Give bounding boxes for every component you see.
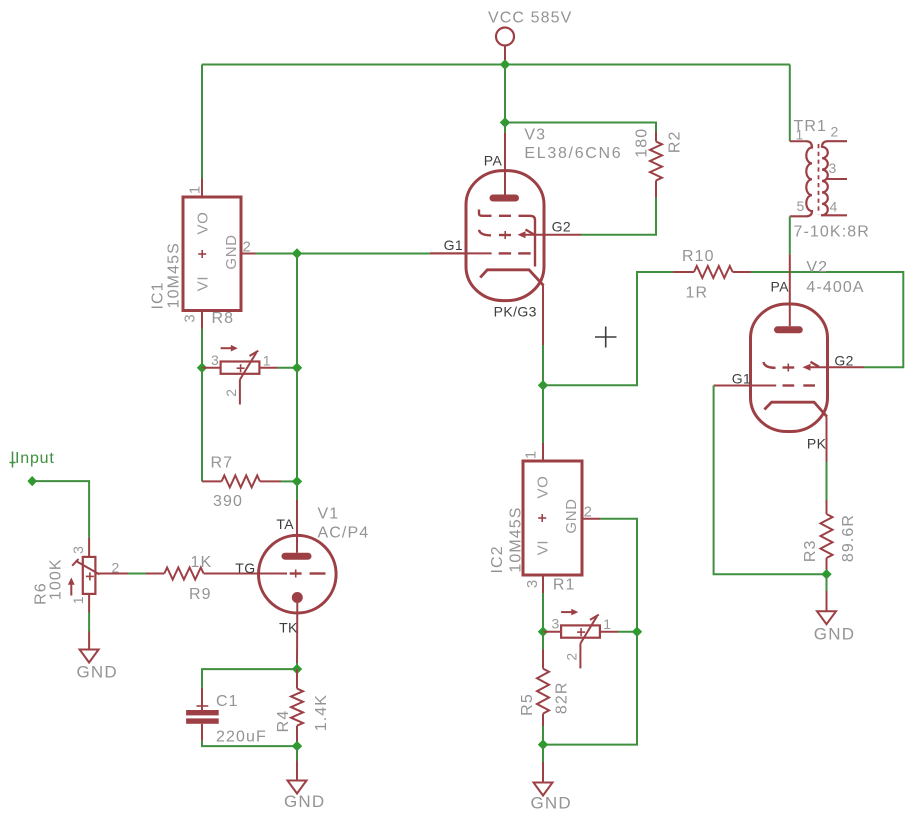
- svg-text:1: 1: [70, 596, 86, 604]
- svg-text:VI: VI: [194, 276, 211, 291]
- tube V1 cathode dot: [292, 592, 303, 603]
- value label 100K: [47, 558, 64, 600]
- trimmer R1 number 1: [603, 616, 611, 632]
- svg-text:R1: R1: [553, 576, 576, 593]
- IC1 label VI: [194, 276, 211, 291]
- junction R8 left: [197, 363, 207, 373]
- wire IC2 pin2 right: [600, 519, 637, 632]
- trimmer R1 pin 3: [543, 631, 561, 633]
- pin label G1 V2: [732, 370, 751, 386]
- trimmer R1 plus mark: [577, 628, 585, 636]
- value label 220uF: [216, 729, 267, 746]
- value label 1K: [191, 554, 213, 571]
- svg-text:PK: PK: [807, 436, 827, 452]
- wire R6 to GND: [88, 613, 90, 632]
- junction R1 left: [538, 627, 548, 637]
- value label 82R: [554, 681, 571, 714]
- svg-text:IC2: IC2: [489, 545, 506, 573]
- svg-text:R4: R4: [275, 710, 292, 733]
- resistor R7: [202, 475, 281, 487]
- trimmer R8 pin 2 stub: [239, 380, 241, 405]
- wire rail left drop to IC1: [201, 65, 203, 179]
- wire IC1 pin2 to V3 G1: [256, 253, 431, 255]
- name label C1: [216, 693, 239, 710]
- wire node to C1: [202, 669, 297, 688]
- name label R9: [189, 586, 212, 603]
- trimmer R8 pin 3: [202, 367, 221, 369]
- trimmer R8 number 1: [263, 352, 271, 368]
- name label TR1: [794, 118, 828, 135]
- name label R5: [519, 693, 536, 716]
- svg-text:Input: Input: [15, 450, 55, 467]
- tube V2 anode plate: [778, 326, 800, 333]
- svg-text:4-400A: 4-400A: [806, 279, 864, 296]
- trimmer R1 number 2: [564, 653, 580, 661]
- TR1 number 3: [829, 160, 837, 176]
- power symbol VCC: [496, 28, 514, 65]
- junction V3 cathode node: [538, 380, 548, 390]
- value label 1.4K: [313, 694, 330, 731]
- svg-text:1.4K: 1.4K: [313, 694, 330, 731]
- capacitor C1 pin top: [197, 688, 209, 710]
- IC2 pin 2: [582, 518, 600, 520]
- wire IC1 pin3 down: [201, 329, 203, 368]
- capacitor C1 plates: [186, 710, 219, 724]
- value label 1R: [686, 285, 709, 302]
- wire node to R2 top: [505, 123, 656, 132]
- wire VCC branch down: [504, 65, 506, 123]
- tube V1 grid pin TG: [248, 573, 287, 575]
- wire V3 G1 pin red: [430, 252, 467, 254]
- svg-text:R10: R10: [682, 248, 715, 265]
- wire R8 right down: [296, 368, 298, 482]
- junction R4 bottom: [292, 741, 302, 751]
- tube V2 anode pin PA: [789, 254, 791, 326]
- IC2 label VI: [534, 540, 551, 555]
- wire V1 TK to node: [296, 663, 298, 669]
- svg-text:1: 1: [263, 352, 271, 368]
- wire V2 PK down: [826, 462, 828, 500]
- value label EL38/6CN6: [524, 145, 622, 162]
- tube V3 cathode pin PK/G3: [542, 286, 544, 346]
- svg-text:GND: GND: [77, 662, 118, 681]
- svg-text:R5: R5: [519, 693, 536, 716]
- svg-text:TK: TK: [279, 620, 298, 636]
- wire R3 node to GND: [826, 574, 828, 591]
- IC2 pin 1: [542, 443, 544, 461]
- svg-text:V2: V2: [806, 259, 828, 276]
- tube V1 cathode pin TK: [296, 603, 298, 663]
- svg-text:R8: R8: [212, 310, 235, 327]
- wire node to R10 riser: [543, 272, 674, 385]
- tube V3 grid G2 row: [479, 230, 534, 240]
- svg-text:2: 2: [112, 559, 120, 575]
- svg-text:VO: VO: [534, 476, 551, 499]
- ground GND3: [534, 783, 553, 796]
- tube V3 grid G1 row: [430, 252, 531, 254]
- pot R6 plus mark: [86, 572, 94, 580]
- svg-text:PA: PA: [771, 278, 790, 294]
- svg-text:TA: TA: [276, 516, 294, 532]
- svg-text:G1: G1: [444, 237, 463, 253]
- transformer TR1 pin 1: [790, 140, 806, 142]
- wire R7 to node: [281, 480, 297, 482]
- value label 7-10K:8R: [794, 223, 870, 240]
- svg-text:VO: VO: [194, 212, 211, 235]
- IC2 pin 3 number: [524, 580, 541, 588]
- svg-text:V1: V1: [318, 506, 340, 523]
- resistor R5: [537, 650, 549, 727]
- pin label G2 V3: [552, 219, 571, 235]
- tube V3 grid pin G2: [523, 234, 581, 236]
- IC2 label VO: [534, 476, 551, 499]
- IC2 plus mark: [538, 514, 546, 522]
- trimmer R1 pin 2 stub: [579, 644, 581, 669]
- tube V2 grid pin G2: [808, 366, 864, 368]
- svg-text:1: 1: [187, 186, 204, 194]
- IC1 pin 1 number: [187, 186, 204, 194]
- svg-text:1R: 1R: [686, 285, 709, 302]
- tube V1 envelope: [259, 535, 337, 613]
- name label V1: [318, 506, 340, 523]
- IC1 label GND: [223, 234, 240, 269]
- name label R10: [682, 248, 715, 265]
- ground GND4 stub: [826, 591, 828, 611]
- ground GND3 stub: [542, 762, 544, 783]
- svg-text:GND: GND: [284, 792, 325, 811]
- ground GND1: [80, 650, 99, 663]
- pin label TA: [276, 516, 294, 532]
- svg-text:3: 3: [552, 616, 560, 632]
- TR1 number 2: [831, 124, 839, 140]
- name label V3: [524, 126, 546, 143]
- wire top rail: [202, 64, 790, 66]
- svg-text:220uF: 220uF: [216, 729, 267, 746]
- trimmer R1 adjust arrow: [561, 609, 578, 616]
- TR1 number 5: [797, 198, 805, 214]
- transformer TR1 core: [818, 144, 820, 215]
- trimmer R1 pin 1: [600, 631, 637, 633]
- svg-text:2: 2: [564, 653, 580, 661]
- tube V1 anode pin TA: [296, 500, 298, 553]
- trimmer R8 plus mark: [237, 364, 245, 372]
- svg-text:G1: G1: [732, 370, 751, 386]
- svg-text:1: 1: [523, 451, 540, 459]
- svg-text:7-10K:8R: 7-10K:8R: [794, 223, 870, 240]
- tube V3 envelope: [466, 171, 544, 301]
- net label Input: [10, 450, 55, 468]
- name label R8: [212, 310, 235, 327]
- pot R6 number 3: [70, 546, 86, 554]
- pot R6 wiper: [72, 559, 99, 574]
- ground GND4: [817, 611, 836, 624]
- net label VCC 585V: [488, 10, 572, 27]
- IC2 pin 3: [542, 575, 544, 593]
- resistor R2: [650, 132, 662, 198]
- IC IC2 body: [523, 461, 582, 575]
- TR1 number 1: [796, 127, 804, 143]
- IC2 label GND: [563, 498, 580, 533]
- wire C1 to node: [202, 741, 297, 747]
- wire V3 PK to node: [542, 345, 544, 385]
- tube V1 grid dashes: [290, 570, 326, 578]
- name label IC2: [489, 545, 506, 573]
- svg-text:V3: V3: [524, 126, 546, 143]
- wire R10 to V2 G2: [751, 272, 903, 367]
- svg-text:4: 4: [830, 199, 838, 215]
- trimmer R1 body: [561, 625, 600, 637]
- wire node to V1 TA: [296, 481, 298, 500]
- IC1 pin 2: [241, 253, 256, 255]
- pot R6 adjust arrow: [68, 578, 75, 596]
- trimmer R1 number 3: [552, 616, 560, 632]
- ground label GND1: [77, 662, 118, 681]
- name label R7: [211, 454, 234, 471]
- pin label TK: [279, 620, 298, 636]
- IC1 plus mark: [198, 250, 206, 258]
- IC1 pin 1: [201, 179, 203, 198]
- svg-text:R2: R2: [666, 130, 683, 153]
- transformer TR1 secondary coil: [822, 141, 847, 215]
- svg-text:1: 1: [796, 127, 804, 143]
- svg-text:PK/G3: PK/G3: [494, 304, 537, 320]
- wire R1 right down: [543, 632, 637, 745]
- tube V2 envelope: [751, 304, 828, 432]
- transformer TR1 primary coil: [790, 141, 812, 216]
- svg-text:PA: PA: [484, 152, 503, 168]
- svg-text:GND: GND: [531, 793, 572, 812]
- wire R5 node to GND: [542, 745, 544, 762]
- resistor R9: [146, 568, 248, 580]
- tube V3 cathode: [480, 270, 543, 286]
- wire V2 G1 around: [714, 386, 827, 575]
- value label 4-400A: [806, 279, 864, 296]
- svg-text:GND: GND: [563, 498, 580, 533]
- pin label PA V3: [484, 152, 503, 168]
- value label 10M45S IC2: [507, 506, 524, 572]
- ground GND1 stub: [88, 632, 90, 650]
- IC2 pin 2 number: [584, 504, 592, 521]
- svg-text:2: 2: [223, 389, 239, 397]
- tube V2 grid G1 row: [714, 385, 815, 387]
- svg-text:2: 2: [584, 504, 592, 521]
- pot R6 pin 1: [88, 594, 90, 613]
- wire end dot Input: [27, 476, 37, 486]
- svg-text:390: 390: [213, 493, 243, 510]
- svg-text:VCC 585V: VCC 585V: [488, 10, 572, 27]
- svg-text:2: 2: [831, 124, 839, 140]
- junction R5 bottom: [538, 739, 548, 749]
- value label 10M45S: [166, 242, 183, 308]
- IC1 pin 3 number: [182, 314, 199, 322]
- tube V2 cathode pin PK: [826, 417, 828, 463]
- svg-text:3: 3: [70, 546, 86, 554]
- wire G1 node down: [296, 254, 298, 368]
- ground GND2: [288, 781, 307, 794]
- tube V3 anode plate: [493, 195, 516, 202]
- origin cross: [595, 327, 617, 348]
- wire node to IC2 pin1: [542, 385, 544, 443]
- wire R2 bottom to V3 G2: [581, 198, 656, 235]
- ground label GND2: [284, 792, 325, 811]
- pot R6 pin 3: [88, 538, 90, 557]
- trimmer R8 body: [221, 362, 260, 374]
- name label R6: [33, 582, 50, 605]
- svg-text:1: 1: [603, 616, 611, 632]
- svg-text:R3: R3: [802, 539, 819, 562]
- svg-text:EL38/6CN6: EL38/6CN6: [524, 145, 622, 162]
- svg-text:R9: R9: [189, 586, 212, 603]
- trimmer R8 number 3: [211, 352, 219, 368]
- wire IC2 pin3 down: [542, 593, 544, 632]
- svg-text:10M45S: 10M45S: [166, 242, 183, 308]
- trimmer R1 wiper: [580, 615, 598, 644]
- name label IC1: [150, 281, 167, 309]
- pin label TG: [235, 560, 255, 576]
- pin label G2 V2: [834, 352, 853, 368]
- value label 390: [213, 493, 243, 510]
- svg-text:100K: 100K: [47, 558, 64, 600]
- junction R8 right: [292, 363, 302, 373]
- TR1 number 4: [830, 199, 838, 215]
- svg-text:G2: G2: [552, 219, 571, 235]
- wire R4 to GND: [296, 746, 298, 760]
- svg-text:C1: C1: [216, 693, 239, 710]
- wire TR1 pin5 to V2 PA: [789, 216, 791, 254]
- tube V3 grid G3 row: [479, 210, 535, 267]
- svg-text:3: 3: [524, 580, 541, 588]
- resistor R10: [674, 266, 752, 278]
- name label R3: [802, 539, 819, 562]
- IC1 pin 2 number: [243, 239, 251, 256]
- svg-text:AC/P4: AC/P4: [318, 524, 370, 541]
- junction V1 anode node: [292, 476, 302, 486]
- pot R6 number 2: [112, 559, 120, 575]
- pot R6 body: [83, 557, 96, 594]
- trimmer R8 number 2: [223, 389, 239, 397]
- svg-text:IC1: IC1: [150, 281, 167, 309]
- ground GND2 stub: [296, 761, 298, 781]
- value label 89.6R: [840, 514, 857, 562]
- pot R6 number 1: [70, 596, 86, 604]
- ground label GND4: [814, 624, 855, 643]
- svg-text:3: 3: [211, 352, 219, 368]
- junction V1 cathode node: [292, 664, 302, 674]
- svg-text:G2: G2: [834, 352, 853, 368]
- trimmer R8 adjust arrow: [221, 345, 238, 352]
- trimmer R8 pin 1: [259, 367, 297, 369]
- name label R4: [275, 710, 292, 733]
- tube V2 cathode: [764, 402, 826, 416]
- pin label PA V2: [771, 278, 790, 294]
- value label AC/P4: [318, 524, 370, 541]
- pot R6 pin 2: [96, 573, 128, 575]
- IC1 pin 3: [201, 311, 203, 329]
- wire R5 to node: [542, 726, 544, 745]
- name label R1: [553, 576, 576, 593]
- junction R1 right: [632, 627, 642, 637]
- svg-text:180: 180: [633, 128, 650, 158]
- svg-text:GND: GND: [223, 234, 240, 269]
- svg-text:1K: 1K: [191, 554, 213, 571]
- ground label GND3: [531, 793, 572, 812]
- resistor R4: [291, 669, 303, 746]
- junction V3 anode node: [500, 117, 510, 127]
- svg-text:5: 5: [797, 198, 805, 214]
- svg-text:VI: VI: [534, 540, 551, 555]
- svg-text:82R: 82R: [554, 681, 571, 714]
- pin label G1 V3: [444, 237, 463, 253]
- svg-text:R7: R7: [211, 454, 234, 471]
- IC IC1 body: [183, 197, 241, 311]
- name label R2: [666, 130, 683, 153]
- wire R6 pin2 net: [128, 573, 146, 575]
- IC2 pin 1 number: [523, 451, 540, 459]
- junction R3 bottom: [821, 569, 831, 579]
- junction G1 node: [292, 248, 302, 258]
- tube V3 anode pin PA: [504, 133, 506, 195]
- pin label PK V2: [807, 436, 827, 452]
- svg-text:GND: GND: [814, 624, 855, 643]
- svg-text:3: 3: [182, 314, 199, 322]
- wire R1 left down: [542, 632, 544, 650]
- trimmer R8 wiper: [240, 351, 258, 380]
- capacitor C1 pin bottom: [201, 724, 203, 741]
- pin label PK/G3: [494, 304, 537, 320]
- wire R8 left down: [201, 368, 203, 482]
- junction VCC rail: [500, 59, 510, 69]
- svg-text:89.6R: 89.6R: [840, 514, 857, 562]
- svg-text:10M45S: 10M45S: [507, 506, 524, 572]
- svg-text:2: 2: [243, 239, 251, 256]
- svg-text:3: 3: [829, 160, 837, 176]
- wire node to V3 PA: [504, 123, 506, 134]
- value label 180: [633, 128, 650, 158]
- name label V2: [806, 259, 828, 276]
- resistor R3: [821, 500, 833, 574]
- transformer TR1 pin 3 tap: [826, 178, 848, 180]
- wire rail right drop to TR1: [789, 65, 791, 142]
- tube V2 grid G2 row: [764, 362, 820, 372]
- tube V1 anode plate: [285, 553, 308, 560]
- IC1 label VO: [194, 212, 211, 235]
- wire Input to R6: [32, 481, 89, 537]
